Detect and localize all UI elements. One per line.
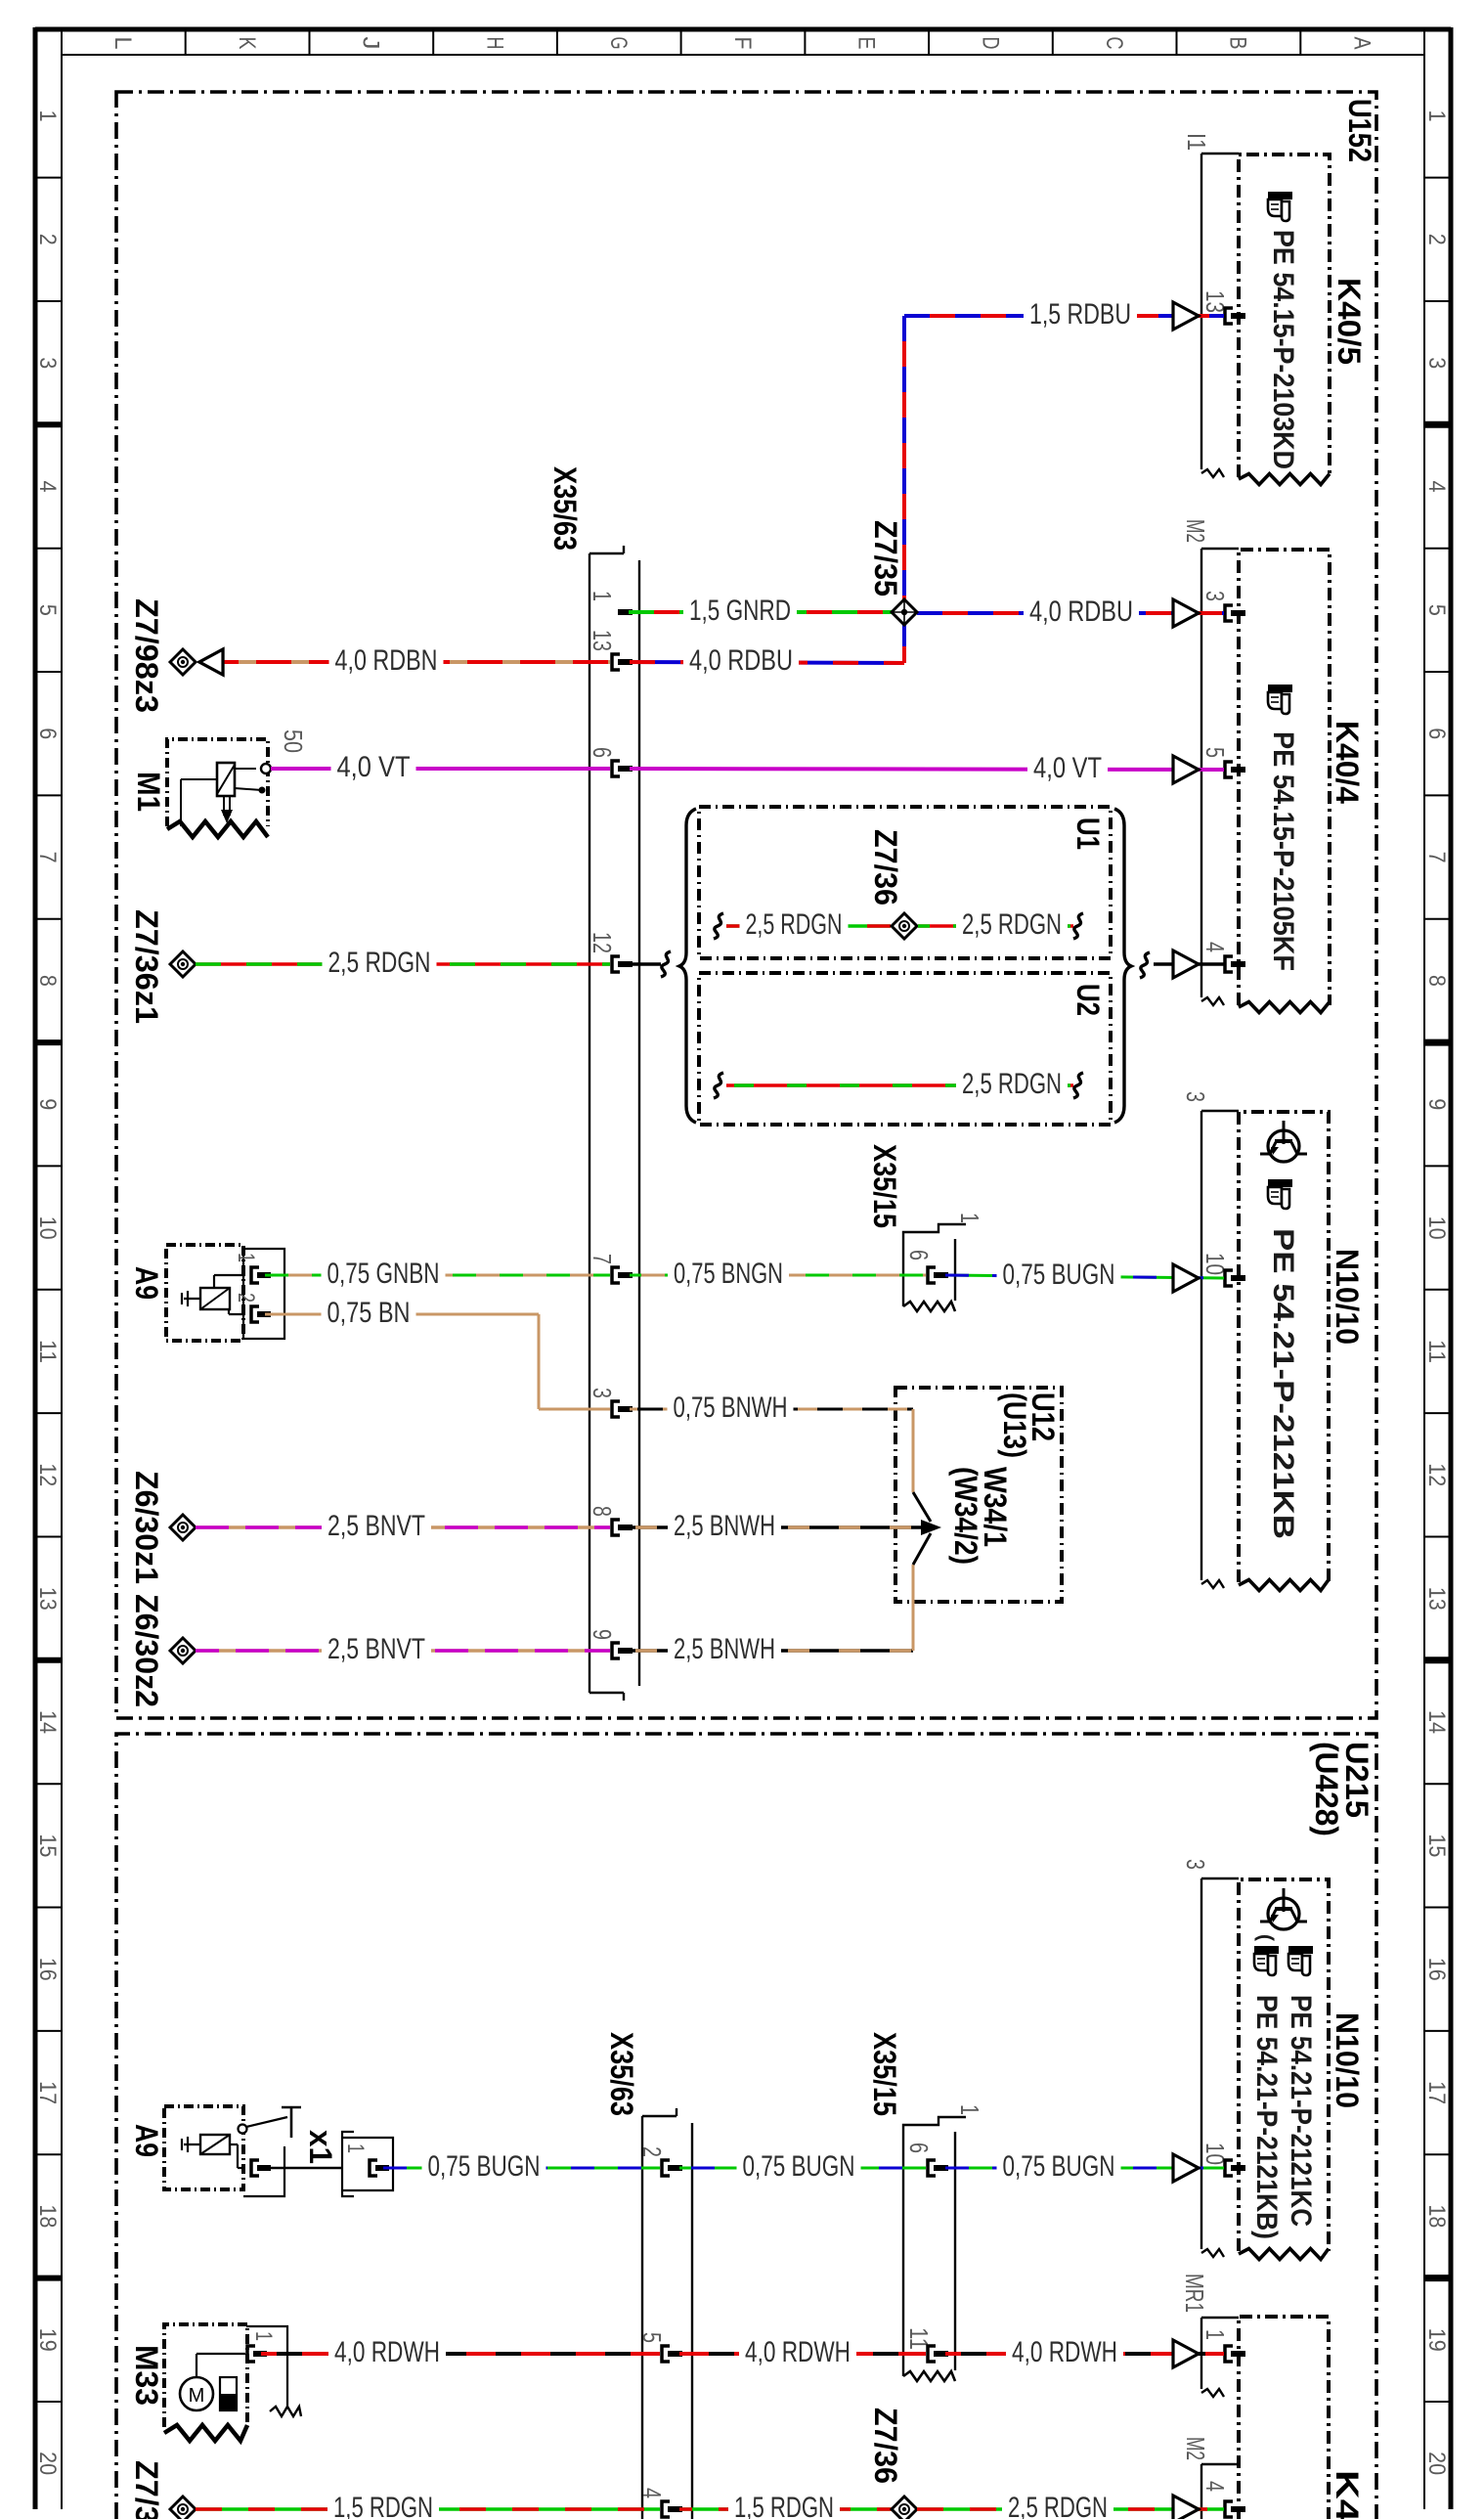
- svg-text:L: L: [109, 37, 136, 50]
- svg-text:PE 54.15-P-2105KF: PE 54.15-P-2105KF: [1267, 731, 1299, 971]
- wire 2,5 RDGN inside U2: [714, 1073, 723, 1098]
- svg-text:E: E: [853, 37, 880, 50]
- control unit N10/10 lower box: [1239, 1879, 1329, 2251]
- svg-text:19: 19: [34, 2328, 61, 2352]
- svg-text:3: 3: [1181, 1859, 1210, 1870]
- svg-text:F: F: [729, 37, 756, 50]
- pin 1 of M33: [247, 2346, 255, 2362]
- svg-text:2: 2: [637, 2146, 667, 2157]
- svg-text:1: 1: [1200, 2329, 1230, 2340]
- svg-text:U1: U1: [1070, 818, 1106, 850]
- svg-text:M2: M2: [1181, 2437, 1210, 2460]
- svg-text:B: B: [1225, 37, 1251, 50]
- svg-text:13: 13: [34, 1587, 61, 1611]
- svg-text:2: 2: [233, 1293, 259, 1303]
- svg-text:0,75 BN: 0,75 BN: [327, 1297, 411, 1329]
- wire 0,75 BNGN X35/63 pin7 to X35/15 pin 6: [630, 1274, 926, 1277]
- svg-text:4,0 RDWH: 4,0 RDWH: [334, 2336, 440, 2368]
- brace right of U1/U2: [1114, 809, 1131, 1123]
- wire 2,5 BNWH X35/63 pin9 to W34/1: [630, 1649, 913, 1653]
- wire 4,0 VT M1 to X35/63 pin 6: [271, 767, 610, 771]
- svg-text:4,0 RDWH: 4,0 RDWH: [1012, 2336, 1117, 2368]
- frame U152: [116, 92, 1376, 1718]
- svg-text:X35/63: X35/63: [604, 2032, 639, 2116]
- wire 2,5 RDGN Z7/36 to M2 pin 4: [917, 2507, 1224, 2511]
- control unit N10/10 box: [1239, 1112, 1329, 1582]
- wire riser RDBU (Z7/35): [902, 316, 906, 663]
- svg-text:K40/5: K40/5: [1331, 278, 1367, 365]
- wire 2,5 RDGN Z7/36z1 to X35/63 pin 12: [196, 962, 610, 966]
- wire 0,75 GNBN A9 to X35/63 pin 7: [265, 1274, 610, 1277]
- svg-text:A9: A9: [129, 1266, 164, 1300]
- svg-text:M: M: [189, 2385, 205, 2407]
- svg-text:15: 15: [34, 1834, 61, 1857]
- wire 0,75 BUGN X35/15 to N10/10 pin 10: [945, 1275, 1224, 1278]
- frame U215 (U428): [116, 1734, 1376, 2519]
- svg-text:8: 8: [588, 1506, 617, 1517]
- svg-text:1: 1: [250, 2331, 277, 2341]
- svg-text:1: 1: [342, 2143, 369, 2153]
- svg-text:PE 54.21-P-2121KC: PE 54.21-P-2121KC: [1285, 1995, 1317, 2227]
- svg-text:3: 3: [588, 1388, 617, 1398]
- svg-text:6: 6: [904, 2143, 934, 2153]
- svg-text:17: 17: [34, 2081, 61, 2104]
- svg-text:8: 8: [34, 975, 61, 987]
- brace left of U1/U2: [679, 809, 696, 1123]
- svg-text:(U428): (U428): [1309, 1742, 1344, 1836]
- svg-text:4,0 VT: 4,0 VT: [1033, 752, 1102, 784]
- svg-text:6: 6: [588, 747, 617, 758]
- svg-text:18: 18: [34, 2204, 61, 2228]
- svg-text:K40/4: K40/4: [1330, 721, 1365, 804]
- svg-text:M2: M2: [1181, 519, 1210, 543]
- svg-text:1: 1: [233, 1253, 259, 1262]
- svg-text:4,0 RDWH: 4,0 RDWH: [745, 2336, 851, 2368]
- wire 4,0 RDWH M33 to X35/63 pin 5: [261, 2352, 660, 2356]
- wire 0,75 BNWH X35/63 pin3 to U12: [630, 1408, 913, 1411]
- wire black X35/63 pin12 to brace: [630, 962, 661, 965]
- svg-text:PE 54.15-P-2103KD: PE 54.15-P-2103KD: [1267, 230, 1299, 469]
- svg-text:X35/15: X35/15: [867, 2032, 902, 2116]
- svg-text:1,5 GNRD: 1,5 GNRD: [689, 595, 791, 627]
- svg-text:2,5 RDGN: 2,5 RDGN: [746, 908, 843, 941]
- svg-text:10: 10: [1423, 1216, 1450, 1240]
- svg-text:I1: I1: [1182, 133, 1211, 151]
- svg-text:0,75 BNGN: 0,75 BNGN: [674, 1258, 783, 1290]
- svg-text:4: 4: [637, 2488, 667, 2498]
- pin 1 of x1: [370, 2160, 377, 2176]
- svg-text:Z7/36: Z7/36: [868, 829, 903, 906]
- wire 0,75 BUGN x1 to X35/63 pin 2: [383, 2167, 660, 2170]
- wire 4,0 RDWH X35/63 to X35/15 pin 11: [679, 2352, 926, 2356]
- svg-text:C: C: [1101, 37, 1127, 50]
- svg-text:Z7/36: Z7/36: [868, 2408, 903, 2484]
- svg-text:20: 20: [34, 2452, 61, 2475]
- svg-text:3: 3: [1423, 357, 1450, 369]
- svg-text:D: D: [977, 37, 1003, 50]
- wire 0,75 BUGN X35/15 to N10/10 pin 10: [945, 2167, 1224, 2170]
- svg-text:20: 20: [1423, 2452, 1450, 2475]
- wire 0,75 BUGN X35/63 to X35/15 pin 6: [679, 2167, 926, 2170]
- svg-text:(W34/2): (W34/2): [948, 1467, 983, 1565]
- W34/1 junction arrow: [913, 1492, 931, 1522]
- wire black right brace to K40/4 pin 4: [1140, 952, 1150, 978]
- wire 1,5 RDBU to K40/5 pin 13: [904, 314, 1224, 318]
- control unit K40/4 box: [1239, 550, 1330, 1005]
- svg-text:5: 5: [637, 2332, 667, 2343]
- svg-text:5: 5: [1423, 604, 1450, 616]
- svg-text:15: 15: [1423, 1834, 1450, 1857]
- wire 1,5 RDGN X35/63 to Z7/36: [679, 2507, 892, 2511]
- svg-text:3: 3: [1200, 591, 1230, 601]
- harness section U1: [699, 807, 1111, 958]
- svg-text:K40/4: K40/4: [1330, 2470, 1365, 2519]
- svg-text:0,75 BUGN: 0,75 BUGN: [743, 2150, 855, 2183]
- svg-text:4: 4: [1200, 942, 1230, 952]
- svg-text:0,75 BUGN: 0,75 BUGN: [1003, 1259, 1115, 1291]
- svg-text:12: 12: [34, 1463, 61, 1486]
- svg-text:Z7/36z1: Z7/36z1: [129, 909, 164, 1024]
- svg-text:G: G: [605, 37, 632, 50]
- svg-text:7: 7: [1423, 852, 1450, 863]
- svg-text:2: 2: [1423, 234, 1450, 245]
- wire 4,0 VT X35/63 pin6 to K40/4 pin 5: [630, 769, 1224, 770]
- svg-text:5: 5: [34, 604, 61, 616]
- control unit K4 box (cut): [1239, 2317, 1329, 2519]
- svg-text:X35/63: X35/63: [547, 466, 583, 551]
- svg-text:2: 2: [34, 234, 61, 245]
- svg-text:7: 7: [34, 852, 61, 863]
- svg-text:(: (: [1254, 1934, 1277, 1941]
- svg-text:50: 50: [279, 729, 308, 753]
- svg-text:Z6/30z2: Z6/30z2: [129, 1594, 164, 1707]
- svg-text:11: 11: [34, 1340, 61, 1363]
- svg-text:A: A: [1349, 37, 1375, 50]
- svg-text:2,5 BNVT: 2,5 BNVT: [327, 1633, 425, 1665]
- svg-text:4: 4: [34, 481, 61, 493]
- svg-text:Z7/98z3: Z7/98z3: [129, 598, 164, 713]
- svg-text:19: 19: [1423, 2328, 1450, 2352]
- svg-text:1,5 RDBU: 1,5 RDBU: [1029, 298, 1131, 331]
- svg-text:13: 13: [588, 630, 617, 651]
- harness section U12 (U13): [895, 1388, 1062, 1602]
- svg-text:9: 9: [34, 1098, 61, 1110]
- wire 1,5 RDGN Z7 to X35/63 pin 4: [196, 2507, 660, 2511]
- svg-text:1: 1: [1423, 110, 1450, 122]
- svg-text:0,75 GNBN: 0,75 GNBN: [327, 1258, 440, 1290]
- sheet border frame: [35, 27, 1451, 32]
- svg-text:1: 1: [955, 1213, 984, 1223]
- wire 4,0 RDBN Z7/98z3 to X35/63 pin 13: [211, 660, 610, 664]
- svg-text:X35/15: X35/15: [867, 1144, 902, 1228]
- wire 2,5 BNVT Z6/30z2 to X35/63 pin 9: [196, 1649, 610, 1653]
- svg-text:MR1: MR1: [1180, 2274, 1209, 2313]
- svg-text:M33: M33: [129, 2345, 164, 2406]
- svg-text:17: 17: [1423, 2081, 1450, 2104]
- svg-text:6: 6: [34, 728, 61, 739]
- svg-text:12: 12: [1423, 1463, 1450, 1486]
- svg-text:9: 9: [1423, 1098, 1450, 1110]
- wire 4,0 RDWH X35/15 to K4 pin 1: [945, 2352, 1224, 2356]
- svg-text:5: 5: [1200, 747, 1230, 758]
- wire 1,5 GNRD X35/63 pin1 to Z7/35: [629, 610, 892, 614]
- svg-text:1,5 RDGN: 1,5 RDGN: [333, 2492, 433, 2519]
- svg-text:2,5 BNWH: 2,5 BNWH: [674, 1510, 775, 1542]
- svg-text:6: 6: [1423, 728, 1450, 739]
- svg-text:11: 11: [1423, 1340, 1450, 1363]
- svg-text:PE 54.21-P-2121KB): PE 54.21-P-2121KB): [1250, 1995, 1283, 2239]
- wire 4,0 RDBU Z7/35 to K40/4 pin 3: [917, 611, 1224, 615]
- wire 2,5 BNVT Z6/30z1 to X35/63 pin 8: [196, 1525, 610, 1529]
- wire 4,0 RDBU X35/63 pin13 to riser: [630, 662, 904, 663]
- svg-text:A9: A9: [129, 2124, 164, 2157]
- svg-text:1: 1: [34, 110, 61, 122]
- svg-text:2,5 RDGN: 2,5 RDGN: [962, 1068, 1062, 1100]
- svg-text:4,0 VT: 4,0 VT: [337, 751, 411, 783]
- svg-text:4: 4: [1423, 481, 1450, 493]
- svg-text:1,5 RDGN: 1,5 RDGN: [734, 2492, 834, 2519]
- svg-text:10: 10: [34, 1216, 61, 1240]
- svg-text:J: J: [358, 37, 384, 50]
- svg-text:3: 3: [34, 357, 61, 369]
- svg-text:M1: M1: [131, 772, 166, 812]
- wire 0,75 BN A9 pin 2: [265, 1313, 539, 1316]
- svg-text:8: 8: [1423, 975, 1450, 987]
- pin of A9 lower: [251, 2160, 259, 2176]
- svg-text:9: 9: [588, 1629, 617, 1640]
- svg-text:U152: U152: [1342, 99, 1377, 162]
- svg-text:1: 1: [955, 2104, 984, 2115]
- svg-text:U2: U2: [1070, 984, 1106, 1016]
- svg-text:4,0 RDBU: 4,0 RDBU: [689, 644, 793, 677]
- svg-text:H: H: [481, 37, 507, 50]
- svg-text:Z6/30z1: Z6/30z1: [129, 1471, 164, 1584]
- svg-text:1: 1: [588, 591, 617, 601]
- svg-text:18: 18: [1423, 2204, 1450, 2228]
- svg-text:13: 13: [1423, 1587, 1450, 1611]
- svg-text:0,75 BUGN: 0,75 BUGN: [428, 2150, 541, 2183]
- svg-text:4,0 RDBN: 4,0 RDBN: [335, 644, 438, 677]
- svg-text:2,5 RDGN: 2,5 RDGN: [328, 947, 431, 979]
- control unit K40/5 box: [1239, 155, 1330, 477]
- svg-text:K: K: [234, 37, 260, 50]
- wire 2,5 BNWH X35/63 pin8 to W34/1: [630, 1525, 923, 1529]
- svg-text:Z7/35: Z7/35: [868, 520, 903, 597]
- svg-text:N10/10: N10/10: [1330, 1249, 1365, 1345]
- wire 2,5 RDGN inside U1: [714, 913, 723, 939]
- svg-text:x1: x1: [303, 2130, 338, 2164]
- svg-text:4: 4: [1200, 2481, 1230, 2492]
- svg-text:16: 16: [34, 1958, 61, 1981]
- svg-text:(U13): (U13): [997, 1392, 1032, 1458]
- svg-text:12: 12: [588, 932, 617, 953]
- svg-text:2,5 RDGN: 2,5 RDGN: [1008, 2492, 1108, 2519]
- svg-text:N10/10: N10/10: [1330, 2012, 1365, 2108]
- svg-text:0,75 BNWH: 0,75 BNWH: [674, 1392, 788, 1424]
- svg-text:2,5 BNWH: 2,5 BNWH: [674, 1633, 775, 1665]
- svg-text:4,0 RDBU: 4,0 RDBU: [1029, 596, 1133, 628]
- harness section U2: [699, 973, 1111, 1125]
- svg-text:PE 54.21-P-2121KB: PE 54.21-P-2121KB: [1267, 1228, 1299, 1539]
- svg-text:14: 14: [34, 1710, 61, 1734]
- svg-text:6: 6: [904, 1250, 934, 1260]
- svg-text:16: 16: [1423, 1958, 1450, 1981]
- svg-text:7: 7: [588, 1254, 617, 1264]
- svg-text:2,5 BNVT: 2,5 BNVT: [327, 1510, 425, 1542]
- svg-text:14: 14: [1423, 1710, 1450, 1734]
- svg-text:3: 3: [1181, 1091, 1210, 1102]
- svg-text:Z7/36z1: Z7/36z1: [129, 2460, 164, 2519]
- svg-text:0,75 BUGN: 0,75 BUGN: [1003, 2150, 1115, 2183]
- svg-text:2,5 RDGN: 2,5 RDGN: [962, 908, 1062, 941]
